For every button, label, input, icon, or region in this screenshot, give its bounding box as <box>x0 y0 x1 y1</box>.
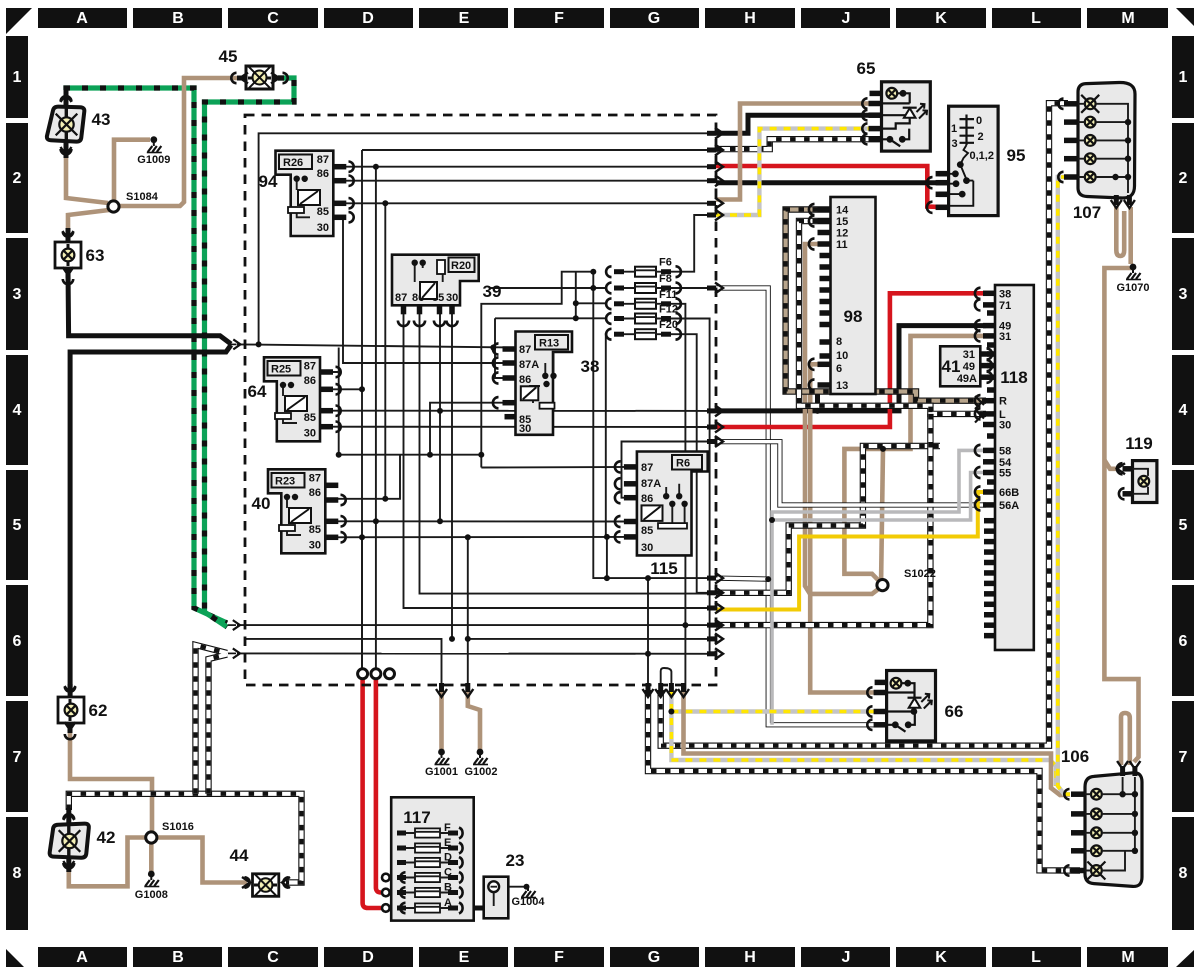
ground G1070 <box>1130 264 1137 271</box>
svg-text:G: G <box>648 949 660 966</box>
svg-text:G1009: G1009 <box>137 154 170 166</box>
svg-text:118: 118 <box>1000 368 1027 387</box>
wire 23 to G1004 <box>499 886 525 888</box>
svg-text:G1008: G1008 <box>135 889 168 901</box>
svg-text:107: 107 <box>1073 203 1101 222</box>
svg-text:S1084: S1084 <box>126 191 159 203</box>
wire yellow/grey 107 pin5 to 106 pin1 <box>1058 177 1070 794</box>
svg-text:63: 63 <box>86 246 105 265</box>
svg-text:F8: F8 <box>659 273 672 285</box>
svg-text:43: 43 <box>92 110 111 129</box>
switch/lamp unit 65 <box>882 82 931 151</box>
svg-text:86: 86 <box>309 487 321 499</box>
svg-text:G1004: G1004 <box>511 896 545 908</box>
svg-text:R20: R20 <box>451 260 471 272</box>
svg-text:H: H <box>744 949 756 966</box>
svg-text:7: 7 <box>13 749 22 766</box>
wire brown 106 jumper hairpin <box>1121 713 1130 765</box>
svg-text:0,1,2: 0,1,2 <box>970 150 994 162</box>
wire yellow/grey to 66 pin3 <box>671 690 1056 786</box>
svg-text:55: 55 <box>999 468 1011 480</box>
lamp unit 119 <box>1133 461 1157 503</box>
wire striped border 593 to R nest <box>716 446 940 593</box>
wire yellow/grey to 65 pin3 <box>716 129 884 215</box>
connector rings D6 <box>358 669 368 679</box>
svg-text:1: 1 <box>13 69 22 86</box>
svg-text:98: 98 <box>844 307 863 326</box>
wire 94 pin85 to border <box>333 202 708 204</box>
svg-text:F20: F20 <box>659 319 678 331</box>
wire red to 117 row A <box>363 678 381 908</box>
svg-text:3: 3 <box>952 138 958 150</box>
merge green wires <box>228 624 236 626</box>
svg-text:R6: R6 <box>676 458 690 470</box>
wire 115 pin87 long <box>481 466 637 469</box>
svg-text:45: 45 <box>219 47 238 66</box>
pin connector hooks <box>668 709 674 715</box>
svg-text:F: F <box>554 10 564 27</box>
wire 40 pin86 <box>325 455 400 499</box>
svg-text:13: 13 <box>836 380 848 392</box>
svg-text:2: 2 <box>13 170 22 187</box>
wire 64 pin87 riser <box>320 348 339 373</box>
wire black thick to 65 pin2 <box>716 115 884 133</box>
svg-text:D: D <box>362 949 374 966</box>
svg-text:F: F <box>554 949 564 966</box>
relay 64 (R25) <box>264 357 320 441</box>
svg-text:6: 6 <box>1179 633 1188 650</box>
connector 106 lamps <box>1085 773 1142 887</box>
svg-text:49: 49 <box>963 361 975 373</box>
svg-text:J: J <box>842 949 851 966</box>
ground G1002 <box>477 749 484 756</box>
wire border hairpin jumper <box>661 668 672 690</box>
svg-text:M: M <box>1121 10 1134 27</box>
svg-text:66: 66 <box>945 702 964 721</box>
wire brown G1002 <box>468 690 480 750</box>
lamp 43 <box>47 107 84 142</box>
svg-text:C: C <box>267 949 279 966</box>
svg-text:86: 86 <box>519 374 531 386</box>
wire yellow/grey branch to 66 pin3 <box>671 709 888 713</box>
svg-text:30: 30 <box>519 423 531 435</box>
svg-text:31: 31 <box>963 349 975 361</box>
svg-text:85: 85 <box>317 206 329 218</box>
wire G1002 drop <box>246 639 442 690</box>
wire red 118:38 <box>716 293 986 427</box>
block 98 connector <box>831 197 876 394</box>
wire green/black from lamp 43 to top <box>66 88 227 623</box>
wire white 56A <box>716 442 986 505</box>
ground G1001 <box>438 749 445 756</box>
svg-text:11: 11 <box>836 239 848 251</box>
svg-text:62: 62 <box>89 701 108 720</box>
relay 115 (R6) <box>637 452 708 556</box>
connector 107 lamps <box>1078 82 1135 198</box>
svg-text:38: 38 <box>581 357 600 376</box>
svg-text:S1022: S1022 <box>904 568 936 580</box>
svg-text:23: 23 <box>506 851 525 870</box>
wire brown G1001 <box>439 690 444 750</box>
wire yellow 118:66B <box>716 492 986 610</box>
svg-text:85: 85 <box>309 524 321 536</box>
wire black thick 63 to merge <box>68 270 231 344</box>
wire striped net riser <box>647 578 649 690</box>
svg-text:F11: F11 <box>659 289 677 301</box>
switch 95 <box>949 106 999 215</box>
svg-text:3: 3 <box>1179 286 1188 303</box>
svg-text:F12: F12 <box>659 304 678 316</box>
svg-text:119: 119 <box>1125 434 1152 453</box>
wire brown G1009 to S1084 <box>114 140 150 202</box>
118 pins R and L connector crosses <box>975 396 984 423</box>
lamp 44 <box>253 874 279 897</box>
svg-text:87A: 87A <box>641 478 661 490</box>
svg-text:4: 4 <box>1179 402 1188 419</box>
wire F11/F12 left bus <box>576 302 607 304</box>
svg-text:44: 44 <box>230 846 249 865</box>
svg-text:E: E <box>459 949 470 966</box>
wire red to 95 <box>716 166 950 207</box>
svg-text:K: K <box>935 10 947 27</box>
wire striped 98 pin14 to 118:R nest <box>786 210 986 401</box>
svg-text:87: 87 <box>395 292 407 304</box>
svg-text:L: L <box>1031 949 1041 966</box>
svg-text:3: 3 <box>13 286 22 303</box>
svg-text:6: 6 <box>836 363 842 375</box>
dashed harness box <box>245 115 716 685</box>
svg-text:10: 10 <box>836 350 848 362</box>
svg-text:31: 31 <box>999 331 1011 343</box>
svg-text:5: 5 <box>1179 517 1188 534</box>
svg-text:56A: 56A <box>999 500 1019 512</box>
wire brown G1070 to 106 <box>1104 268 1138 762</box>
svg-text:G1001: G1001 <box>425 766 458 778</box>
svg-text:A: A <box>76 949 88 966</box>
svg-text:85: 85 <box>304 412 316 424</box>
svg-text:8: 8 <box>1179 865 1188 882</box>
svg-text:H: H <box>744 10 756 27</box>
svg-text:85: 85 <box>641 525 653 537</box>
svg-text:R: R <box>999 396 1007 408</box>
wire F-bus vertical <box>593 272 708 578</box>
wire brown 119 tap <box>1104 460 1117 469</box>
wire striped merge line <box>237 652 710 654</box>
svg-text:F6: F6 <box>659 257 672 269</box>
svg-text:2: 2 <box>978 131 984 143</box>
merge striped wires <box>228 652 236 654</box>
svg-text:M: M <box>1121 949 1134 966</box>
svg-text:G1002: G1002 <box>464 766 497 778</box>
control unit 118 <box>995 285 1034 650</box>
ground G1009 <box>150 136 157 143</box>
svg-text:R23: R23 <box>275 476 295 488</box>
svg-text:71: 71 <box>999 300 1011 312</box>
svg-text:86: 86 <box>641 493 653 505</box>
wire brown to 65 pin1 <box>716 104 884 200</box>
wire 94 pin86 / ring1 vertical <box>362 149 708 151</box>
svg-text:B: B <box>172 949 184 966</box>
svg-text:S1016: S1016 <box>162 821 194 833</box>
wire brown S1016 to 44 <box>156 838 247 883</box>
svg-text:49A: 49A <box>957 373 977 385</box>
wire 64 pin30 to border (red 118:38 net) <box>320 426 708 428</box>
svg-text:86: 86 <box>317 168 329 180</box>
svg-text:30: 30 <box>999 420 1011 432</box>
wire 94 pin30 to 38 pin87A <box>333 217 515 363</box>
wire striped to 65 pin4 <box>716 139 884 149</box>
wire 115 pin86 riser to border (white 56A net) <box>622 442 709 498</box>
wire F20 left <box>606 332 607 334</box>
svg-text:R25: R25 <box>271 364 291 376</box>
svg-text:K: K <box>935 949 947 966</box>
block 41 <box>940 346 980 386</box>
svg-text:106: 106 <box>1061 747 1089 766</box>
svg-text:30: 30 <box>304 428 316 440</box>
svg-text:87A: 87A <box>519 359 539 371</box>
wire 63 net to H border <box>237 344 516 347</box>
svg-text:R13: R13 <box>539 338 559 350</box>
harness-box border connector arrows (right edge) <box>707 131 716 136</box>
svg-text:B: B <box>172 10 184 27</box>
svg-text:40: 40 <box>252 494 271 513</box>
fusebox 117 <box>391 797 474 920</box>
svg-text:58: 58 <box>999 445 1011 457</box>
svg-text:87: 87 <box>519 344 531 356</box>
node S1084 <box>108 201 119 212</box>
relay 39 (R20) <box>392 255 479 306</box>
svg-text:117: 117 <box>403 808 430 827</box>
svg-text:87: 87 <box>309 473 321 485</box>
wire 38 pin85 branch <box>430 403 516 455</box>
wire fuse rows right side <box>663 215 708 272</box>
svg-text:8: 8 <box>836 336 842 348</box>
svg-text:65: 65 <box>857 59 876 78</box>
svg-text:4: 4 <box>13 402 22 419</box>
svg-text:12: 12 <box>836 228 848 240</box>
wire 94 pin87 to border <box>333 166 708 168</box>
fuses F6 F8 F11 F12 F20 <box>635 267 656 277</box>
wire 64 pin86 tap <box>320 388 362 390</box>
wire grey F8 net down to 66 pin4 <box>716 288 888 725</box>
svg-text:D: D <box>362 10 374 27</box>
wire striped 42 to 44 <box>69 794 302 883</box>
svg-text:86: 86 <box>304 375 316 387</box>
svg-text:115: 115 <box>650 559 677 578</box>
svg-text:15: 15 <box>836 216 848 228</box>
lamp/diode unit 66 <box>887 671 936 741</box>
svg-text:38: 38 <box>999 288 1011 300</box>
wire brown S1084 to fuse 45 <box>117 78 246 206</box>
wire brown bundle to 106 pin1 <box>684 690 1071 795</box>
wire brown 118:31 to S1022 <box>844 336 986 583</box>
svg-text:1: 1 <box>951 123 957 135</box>
fuse 45 <box>246 66 273 89</box>
svg-text:30: 30 <box>317 222 329 234</box>
wire brown 42 to S1016 <box>69 838 146 887</box>
svg-text:C: C <box>267 10 279 27</box>
svg-text:30: 30 <box>446 292 458 304</box>
svg-text:0: 0 <box>976 115 982 127</box>
svg-text:8: 8 <box>13 865 22 882</box>
svg-text:87: 87 <box>641 462 653 474</box>
svg-text:95: 95 <box>1007 146 1026 165</box>
svg-text:87: 87 <box>317 154 329 166</box>
ground G1008 <box>148 871 155 878</box>
wire green merge line <box>237 624 708 626</box>
wire striped pair up to merge <box>196 645 228 794</box>
wire grey 118:58 <box>772 450 986 724</box>
svg-text:G1070: G1070 <box>1116 282 1149 294</box>
unit 23 <box>484 877 509 919</box>
wire brown 98 pin11 to S1022 <box>805 244 881 594</box>
wire F6 left to 38 pin86 <box>481 272 593 455</box>
svg-text:G: G <box>648 10 660 27</box>
svg-text:E: E <box>459 10 470 27</box>
svg-text:J: J <box>842 10 851 27</box>
wire 40 pin30 to 115 pin85 <box>325 536 637 538</box>
merge 63 wires <box>229 343 237 345</box>
svg-text:L: L <box>1031 10 1041 27</box>
wire junction dots <box>256 341 262 347</box>
wire striped border 625 to L <box>716 414 930 625</box>
node S1016 <box>146 832 157 843</box>
relay 40 (R23) <box>268 469 325 553</box>
svg-text:42: 42 <box>97 828 116 847</box>
wire rings risers <box>361 545 363 669</box>
svg-text:2: 2 <box>1179 170 1188 187</box>
wire 94 pin86 to border <box>333 180 708 182</box>
harness-box border connector arrows (bottom edge) <box>439 683 444 692</box>
wire brown 107 jumper hairpin <box>1116 207 1124 256</box>
svg-text:6: 6 <box>13 633 22 650</box>
wire brown 107 to G1070 <box>1128 207 1133 264</box>
svg-text:94: 94 <box>259 172 278 191</box>
lamp 63 <box>55 242 81 268</box>
wire brown 62 to S1016 <box>70 727 152 833</box>
wire brown 98 pin6 down to 66 pin2 <box>810 364 888 692</box>
wire green/black from fuse 45 right side <box>205 78 295 627</box>
wire brown S1084 down to 63 <box>68 210 109 240</box>
wire black thick merge down to 62 <box>70 345 231 692</box>
wire striped 115 net to 106 pin5 <box>648 690 1080 871</box>
wire F8 left long <box>490 287 607 289</box>
wire grey 118:55 <box>772 473 986 521</box>
svg-text:5: 5 <box>13 517 22 534</box>
wire black thick to 95 <box>716 180 950 185</box>
node S1022 <box>877 580 888 591</box>
svg-text:66B: 66B <box>999 487 1019 499</box>
wire 115 pin85 drop to border grey <box>606 537 608 578</box>
svg-text:7: 7 <box>1179 749 1188 766</box>
relay 38 (R13) <box>516 332 573 435</box>
wire 40 pin85 to 115 coil <box>325 520 637 522</box>
wire brown 43 to S1084 <box>66 158 108 203</box>
lamp 62 <box>58 697 84 723</box>
wire red to 117 row B <box>376 678 381 893</box>
svg-text:R26: R26 <box>283 157 303 169</box>
svg-text:14: 14 <box>836 205 849 217</box>
wire brown S1016 to G1008 <box>149 842 154 872</box>
svg-text:64: 64 <box>248 382 267 401</box>
wire 39 pin drops <box>404 312 709 608</box>
svg-text:39: 39 <box>483 282 502 301</box>
svg-text:30: 30 <box>641 542 653 554</box>
wire striped border to 107 pin1 <box>661 103 1068 746</box>
wire 117 row A to 23 <box>460 906 487 911</box>
wire 64 pin85 to border (black 118:49 net) <box>320 410 708 412</box>
svg-text:30: 30 <box>309 540 321 552</box>
svg-text:1: 1 <box>1179 69 1188 86</box>
lamp 42 <box>50 824 89 858</box>
svg-text:87: 87 <box>304 361 316 373</box>
relay 94 (R26) <box>276 151 334 236</box>
svg-text:A: A <box>76 10 88 27</box>
wire black thick 118:49 <box>716 326 986 411</box>
